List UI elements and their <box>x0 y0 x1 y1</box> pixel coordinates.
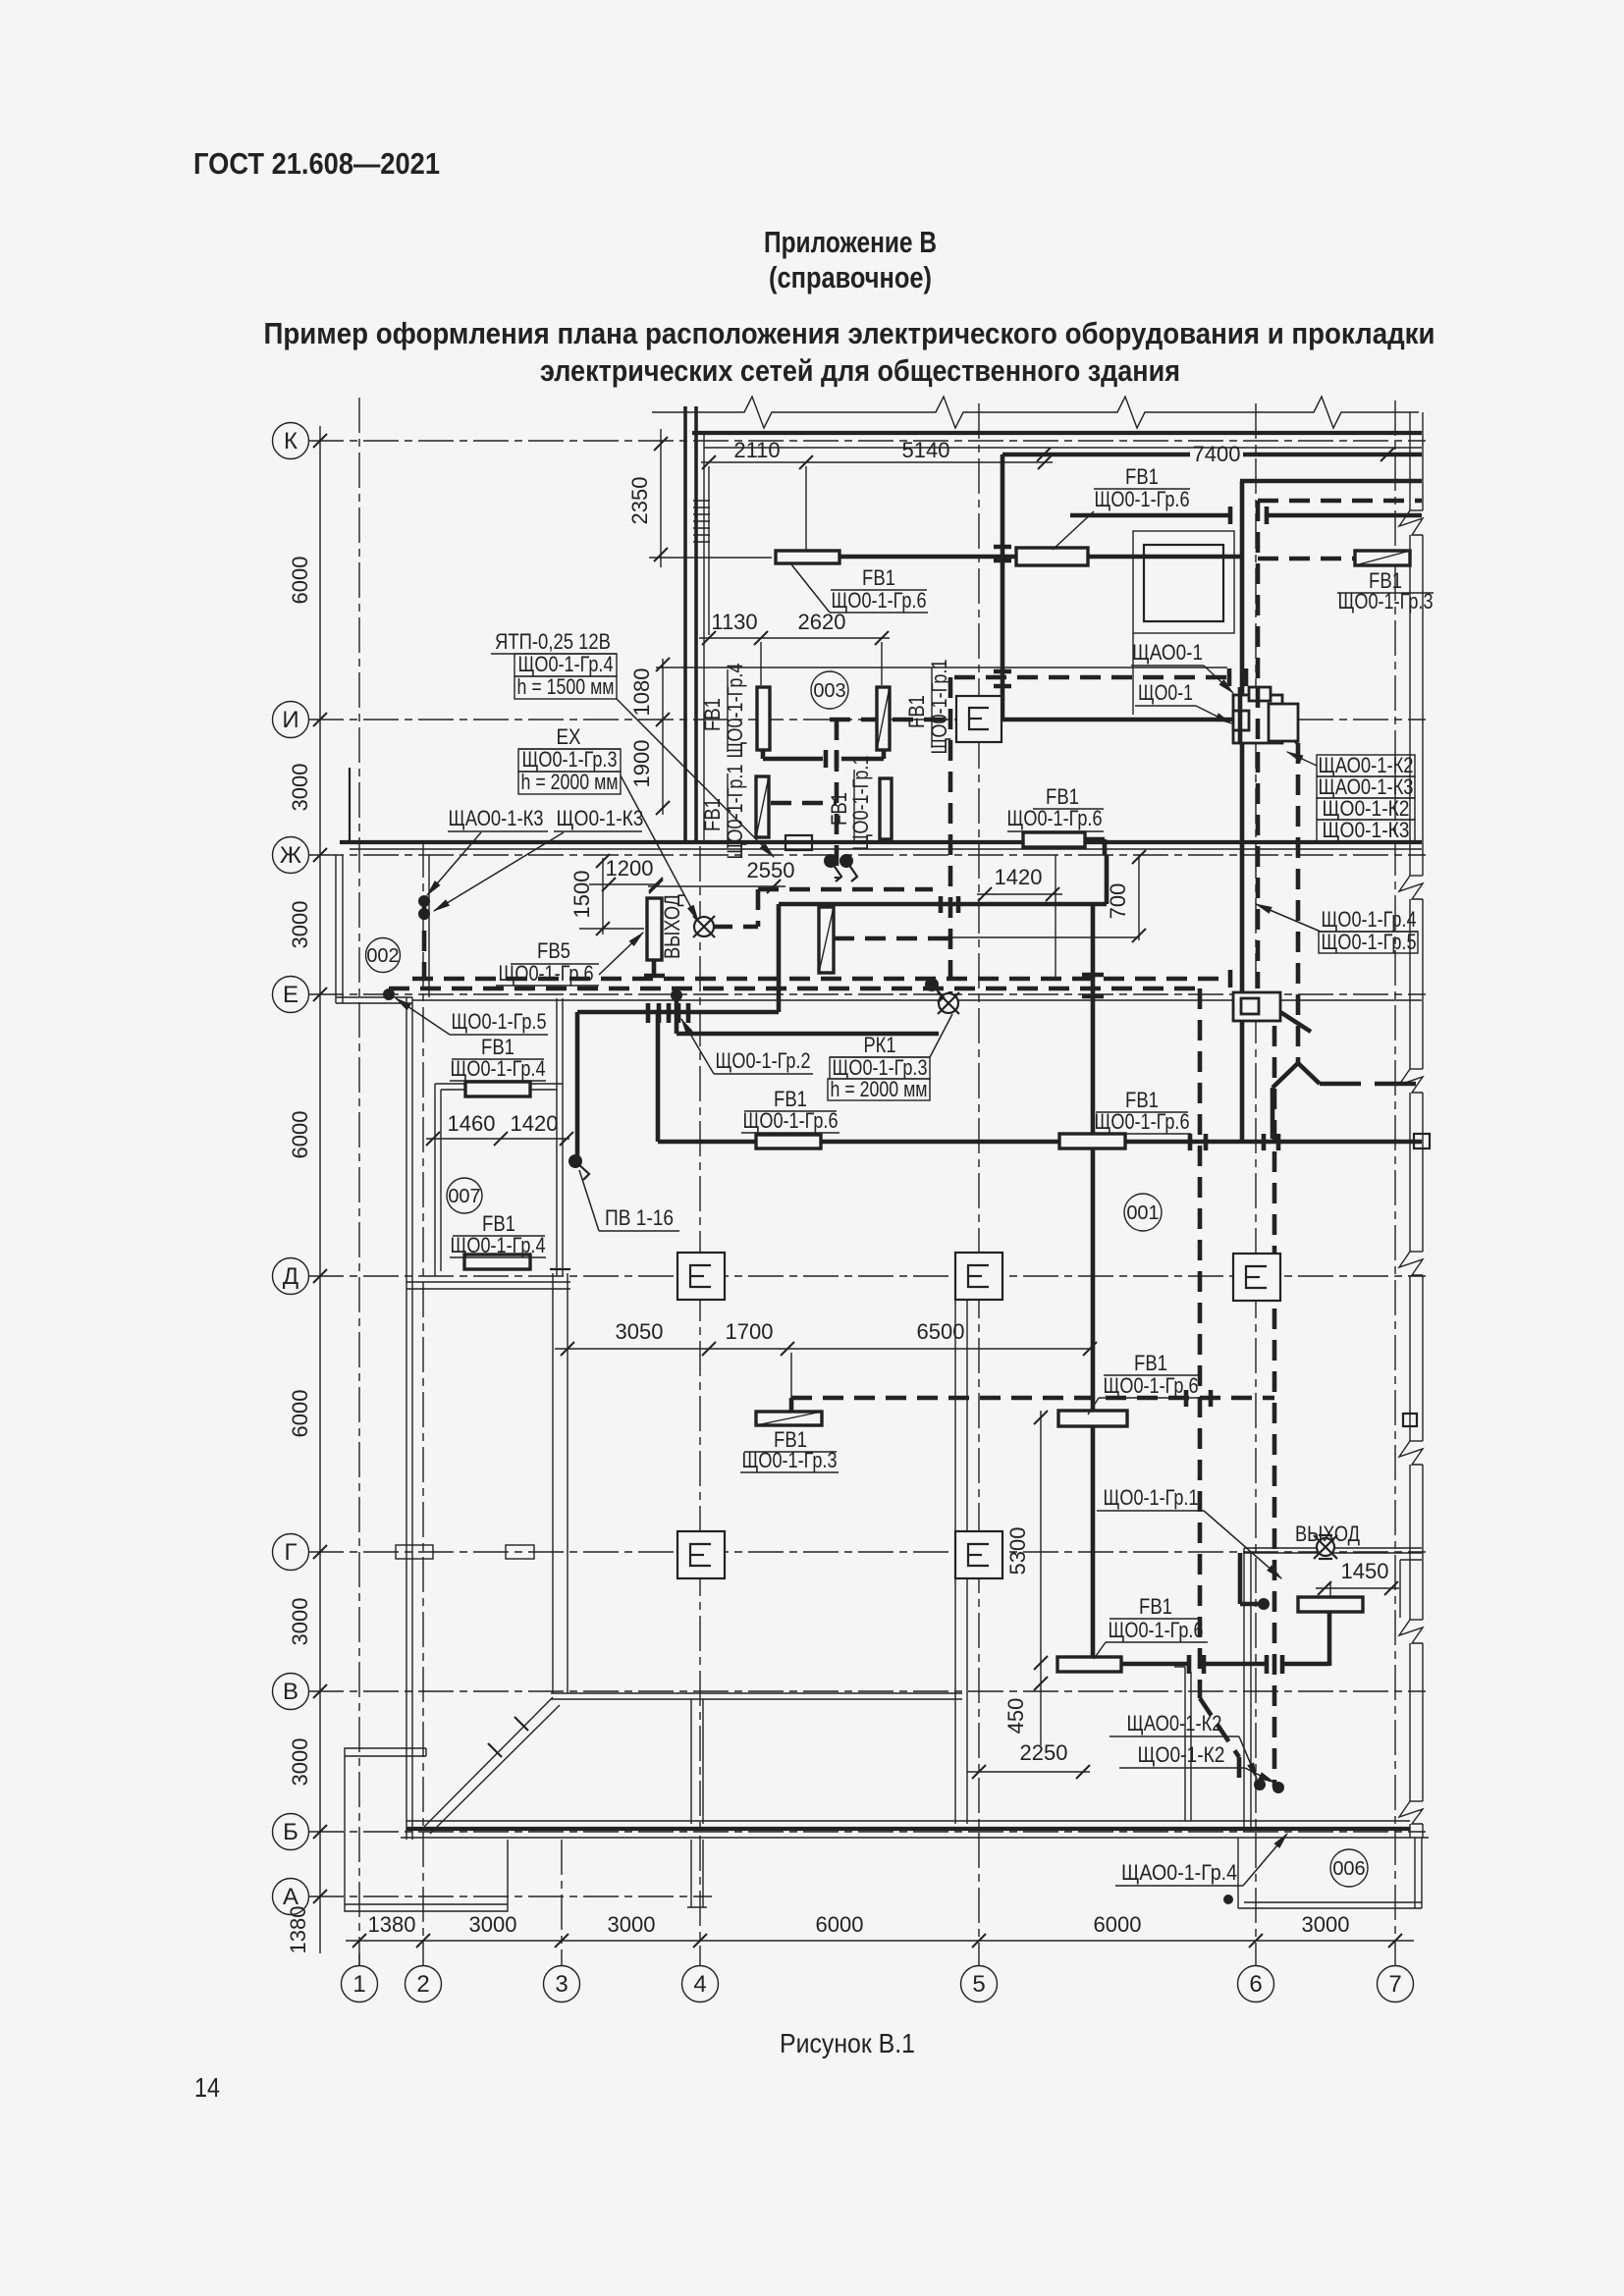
svg-text:ЩО0-1-Гр.1: ЩО0-1-Гр.1 <box>848 756 873 851</box>
column line 6 <box>1255 403 1257 1965</box>
wire top room run <box>839 555 1016 560</box>
column line stubs to bubbles <box>358 1953 360 1965</box>
wire run Gr6 y1163 <box>658 1140 1422 1145</box>
wire riser exit lamp <box>1327 1609 1332 1666</box>
dashed stub room003 <box>835 720 839 879</box>
svg-text:ЩО0-1-Гр.6: ЩО0-1-Гр.6 <box>1104 1373 1199 1398</box>
wire Gr1 drop at exit <box>1238 1553 1243 1604</box>
svg-text:003: 003 <box>813 680 845 702</box>
svg-text:ЩО0-1-Гр.4: ЩО0-1-Гр.4 <box>451 1056 546 1081</box>
column line 2 <box>422 842 424 1965</box>
svg-text:ЩО0-1-Гр.1: ЩО0-1-Гр.1 <box>1104 1485 1199 1510</box>
luminaire FB1 I-Zh right <box>1023 832 1085 847</box>
svg-text:ЩАО0-1-Гр.4: ЩАО0-1-Гр.4 <box>1121 1860 1237 1885</box>
dashed riser x1281 <box>1256 501 1261 988</box>
svg-text:ВЫХОД: ВЫХОД <box>660 894 684 959</box>
svg-text:Пример оформления плана распол: Пример оформления плана расположения эле… <box>264 316 1435 350</box>
dashed diagonal to B <box>1200 1698 1239 1757</box>
svg-text:FB1: FB1 <box>904 695 929 728</box>
diagonal wall V-B <box>424 1697 553 1827</box>
wire run y1695 <box>1057 1662 1189 1667</box>
diagonal door jamb <box>488 1743 502 1757</box>
dashed feed to FB1 Gr3 luminaire <box>1258 557 1355 561</box>
dashed branch to emergency luminaire <box>834 936 948 941</box>
axis bubble D <box>273 1258 309 1295</box>
porch outline bottom-left <box>345 1748 508 1911</box>
panel box at E/col6 <box>1233 992 1280 1021</box>
svg-text:В: В <box>283 1679 298 1705</box>
junction dot Gr5 <box>383 988 395 1000</box>
axis V line <box>308 1690 1426 1692</box>
svg-text:1450: 1450 <box>1341 1559 1389 1583</box>
column symbol D5 <box>955 1253 1002 1300</box>
axis bubble 7 <box>1378 1966 1414 2002</box>
svg-text:ЩО0-1: ЩО0-1 <box>1138 680 1193 705</box>
axis bubble 3 <box>544 1966 580 2002</box>
dim 700 vertical <box>1138 855 1140 940</box>
dim 2250 <box>967 1771 1090 1773</box>
axis bubble Zh <box>273 837 309 874</box>
exit lamp bottom right (X with stubs) <box>1314 1535 1337 1559</box>
svg-text:2250: 2250 <box>1020 1740 1068 1765</box>
wire riser east x1265 <box>1240 481 1245 1142</box>
svg-text:h = 1500 мм: h = 1500 мм <box>517 674 615 699</box>
top break line with zigzags <box>652 397 1419 428</box>
wire segment K-I right <box>1267 513 1422 518</box>
room circle 002 <box>366 938 401 973</box>
dim 1460 1420 (room 007) <box>426 1138 569 1140</box>
column line 5 <box>978 403 980 1965</box>
svg-text:2110: 2110 <box>733 438 780 462</box>
wire end box right wall y1104 <box>1403 1414 1417 1426</box>
column 4 wall V-B <box>690 1699 692 1824</box>
svg-text:РК1: РК1 <box>864 1033 896 1057</box>
axis bubble V <box>273 1674 309 1710</box>
svg-text:6000: 6000 <box>288 557 312 605</box>
elevator room outline <box>1133 531 1234 633</box>
svg-text:ЩО0-1-Гр.5: ЩО0-1-Гр.5 <box>452 1009 547 1034</box>
svg-text:ЩО0-1-Гр.6: ЩО0-1-Гр.6 <box>1095 487 1190 511</box>
axis bubble A <box>273 1879 309 1915</box>
axis bubble 6 <box>1238 1966 1274 2002</box>
top wall thick <box>692 431 1422 435</box>
axis A line <box>308 1896 712 1897</box>
dashed run I corridor <box>954 675 1229 680</box>
dashed riser x1222 E-B <box>1198 988 1203 1698</box>
dim 2110 5140 line <box>701 461 1053 463</box>
svg-text:FB1: FB1 <box>700 698 725 731</box>
switch dots at Zh wall <box>824 854 838 868</box>
wire riser x588 to switch <box>575 1012 580 1156</box>
lamp RK1 (circle-X) <box>938 992 959 1014</box>
axis bubble K <box>273 423 309 459</box>
axis bubble 5 <box>961 1966 998 2002</box>
dim 2550 <box>648 885 785 887</box>
west wall column 4 upper outer <box>683 406 687 842</box>
luminaire FB1 room003 v4 <box>880 778 892 839</box>
column symbol G5 <box>955 1531 1002 1578</box>
wire riser x689 <box>675 995 679 1034</box>
dashed run G y1424 <box>791 1396 1274 1401</box>
svg-text:14: 14 <box>194 2072 220 2103</box>
wire top room run right <box>1088 555 1242 560</box>
svg-text:3000: 3000 <box>288 1598 312 1646</box>
svg-text:ЩО0-1-Гр.4: ЩО0-1-Гр.4 <box>451 1233 546 1257</box>
room 006 corridor wall <box>1184 1667 1186 1821</box>
dashed double run E lower <box>389 987 1200 991</box>
left dim ticks <box>313 434 327 1903</box>
svg-text:FB1: FB1 <box>862 565 895 590</box>
porch bottom right <box>1244 1901 1422 1903</box>
svg-text:1500: 1500 <box>569 871 594 919</box>
dashed riser x1298 <box>1272 994 1277 1788</box>
svg-text:1130: 1130 <box>711 610 757 634</box>
dim 5300 vertical <box>1040 1411 1042 1669</box>
room 002 west stub above Zh <box>349 768 351 842</box>
svg-text:001: 001 <box>1126 1202 1159 1224</box>
luminaire FB1 exit bottom right <box>1298 1597 1363 1612</box>
switch near RK1 <box>925 978 939 991</box>
svg-text:ЩО0-1-Гр.6: ЩО0-1-Гр.6 <box>1007 806 1103 830</box>
door niche right porch <box>1399 1560 1401 1618</box>
dim 3050 1700 6500 <box>555 1348 1095 1350</box>
luminaire FB1 top-mid <box>1016 548 1088 565</box>
svg-text:ЩО0-1-Гр.6: ЩО0-1-Гр.6 <box>499 961 594 986</box>
axis Zh line <box>308 854 1426 856</box>
dim 1420 (I-Zh) <box>977 893 1062 895</box>
svg-text:3000: 3000 <box>469 1912 517 1937</box>
svg-text:И: И <box>282 707 298 733</box>
svg-text:ЩАО0-1-К3: ЩАО0-1-К3 <box>449 806 544 830</box>
svg-text:4: 4 <box>693 1971 706 1998</box>
wire top-right run <box>1240 479 1422 484</box>
svg-text:7400: 7400 <box>1193 442 1241 466</box>
axis bubble 1 <box>342 1966 378 2002</box>
svg-text:ЩО0-1-Гр.4: ЩО0-1-Гр.4 <box>723 664 747 759</box>
wire run y1053 <box>677 1032 939 1037</box>
svg-text:Приложение В: Приложение В <box>764 225 937 259</box>
svg-text:1380: 1380 <box>368 1912 416 1937</box>
dim refs verticals <box>649 466 882 685</box>
svg-text:ЩО0-1-Гр.6: ЩО0-1-Гр.6 <box>1109 1618 1204 1642</box>
riser x1113 E-B <box>1091 904 1096 1664</box>
luminaire FB1 E run right <box>1059 1134 1125 1148</box>
room 003 partition top <box>656 667 1227 668</box>
column symbol D4 <box>677 1253 725 1300</box>
svg-text:6: 6 <box>1249 1971 1262 1998</box>
svg-text:ЩО0-1-Гр.3: ЩО0-1-Гр.3 <box>1338 589 1434 614</box>
svg-text:1200: 1200 <box>606 856 654 881</box>
svg-text:Д: Д <box>283 1263 298 1290</box>
wire riser x793 <box>777 904 782 1012</box>
axis bubble E <box>273 977 309 1013</box>
svg-text:ЩО0-1-Гр.4: ЩО0-1-Гр.4 <box>518 652 614 676</box>
luminaire FB1 bottom run <box>1057 1657 1121 1672</box>
svg-text:ЩО0-1-Гр.6: ЩО0-1-Гр.6 <box>1095 1109 1190 1134</box>
svg-text:1: 1 <box>352 1971 365 1998</box>
dashed run top-right <box>1258 499 1422 504</box>
room circle 007 <box>447 1178 482 1213</box>
junction dots B area <box>1254 1779 1266 1790</box>
room circle 001 <box>1124 1194 1162 1231</box>
west wall Zh-E inner <box>342 855 344 1003</box>
axis bubble G <box>273 1534 309 1571</box>
svg-text:1080: 1080 <box>629 668 654 717</box>
boxed labels K2 K3 stack <box>1317 755 1415 776</box>
svg-text:ПВ 1-16: ПВ 1-16 <box>605 1205 674 1230</box>
Zh wall thick <box>340 840 1422 844</box>
svg-text:ЩО0-1-Гр.6: ЩО0-1-Гр.6 <box>743 1108 839 1133</box>
svg-text:h = 2000 мм: h = 2000 мм <box>831 1077 928 1101</box>
left dimension chain line <box>319 426 321 1953</box>
wire riser x670 <box>656 1012 661 1142</box>
room 006 west wall <box>1243 1548 1245 1832</box>
svg-text:6500: 6500 <box>917 1319 965 1344</box>
room 007 top wall <box>435 1083 563 1085</box>
svg-text:ЩО0-1-Гр.3: ЩО0-1-Гр.3 <box>742 1448 838 1472</box>
column symbol G4 <box>677 1531 725 1578</box>
svg-text:ЩАО0-1: ЩАО0-1 <box>1132 640 1203 665</box>
svg-text:FB1: FB1 <box>1134 1351 1167 1375</box>
V wall horizontal <box>551 1692 962 1694</box>
svg-text:EX: EX <box>557 724 581 749</box>
wire end box right wall y1163 <box>1414 1134 1430 1148</box>
svg-text:FB1: FB1 <box>1139 1594 1172 1619</box>
luminaire FB1 E run left <box>756 1135 821 1148</box>
column line 4 <box>699 846 701 1965</box>
room circle 006 <box>1330 1849 1368 1887</box>
solid run I axis <box>1002 718 1233 722</box>
dashed exit lamp wire <box>712 925 758 930</box>
axis E line <box>308 993 1426 995</box>
crossing bars on run1424 <box>1186 1390 1211 1407</box>
west wall E-B outer <box>406 997 407 1840</box>
svg-text:1700: 1700 <box>726 1319 774 1344</box>
axis bubble I <box>273 702 309 738</box>
svg-text:1420: 1420 <box>995 865 1043 889</box>
Zh wall thin face <box>350 848 1422 850</box>
svg-text:Рисунок В.1: Рисунок В.1 <box>780 2028 915 2058</box>
svg-text:7: 7 <box>1388 1971 1401 1998</box>
svg-text:006: 006 <box>1332 1858 1365 1880</box>
room circle 003 <box>811 671 848 709</box>
top wall inner thin <box>704 447 1422 449</box>
porch wall column 4 <box>690 1840 692 1907</box>
svg-text:ЩО0-1-Гр.5: ЩО0-1-Гр.5 <box>1322 930 1417 954</box>
svg-text:ЩО0-1-Гр.3: ЩО0-1-Гр.3 <box>522 747 618 772</box>
svg-text:1900: 1900 <box>629 740 654 788</box>
svg-text:ЩО0-1-К3: ЩО0-1-К3 <box>1323 818 1410 842</box>
dim 1450 <box>1316 1587 1399 1589</box>
axis D line <box>308 1275 1426 1277</box>
luminaire FB5 vertical <box>647 898 662 960</box>
svg-text:002: 002 <box>366 945 399 967</box>
luminaire FB1 top-right with diagonal <box>1355 551 1410 565</box>
wire segment K-I left <box>1070 513 1230 518</box>
axis bubble B <box>273 1814 309 1850</box>
dim 1200 <box>589 883 660 885</box>
axis G line <box>308 1551 1426 1553</box>
luminaire emergency v diagonal near exit <box>819 907 834 973</box>
svg-text:5: 5 <box>972 1971 985 1998</box>
west wall Zh-E outer <box>335 855 337 1003</box>
svg-text:FB1: FB1 <box>1125 464 1159 489</box>
dim 1080 1900 vertical <box>662 659 664 815</box>
svg-text:3050: 3050 <box>616 1319 664 1344</box>
axis B line <box>308 1831 1426 1833</box>
wire run y921 <box>779 902 1107 907</box>
dashed riser x432 <box>422 899 427 979</box>
junction dots K3 <box>418 895 430 907</box>
dim 7400 thick line <box>1002 453 1190 457</box>
axis bubble 2 <box>406 1966 442 2002</box>
column line 7 <box>1394 400 1396 1965</box>
west wall column 4 upper inner <box>694 406 698 842</box>
svg-text:Г: Г <box>285 1539 298 1566</box>
wire run y1031 <box>577 1010 779 1015</box>
crossing bars on E wall <box>648 1003 688 1023</box>
room 007 west wall <box>434 1084 436 1276</box>
room 007 east wall <box>556 998 558 1276</box>
dashed double run E upper <box>412 977 1230 982</box>
room 002 east wall <box>428 855 430 997</box>
svg-text:3000: 3000 <box>288 901 312 949</box>
svg-text:ЩАО0-1-К2: ЩАО0-1-К2 <box>1127 1711 1222 1735</box>
luminaire FB1 room003 v2 diagonal <box>877 687 890 750</box>
svg-text:ЩО0-1-Гр.4: ЩО0-1-Гр.4 <box>1322 907 1417 932</box>
svg-text:ЩО0-1-Гр.2: ЩО0-1-Гр.2 <box>716 1048 811 1073</box>
bottom dim ticks <box>352 1934 1402 1948</box>
luminaire FB1 riser mid <box>1058 1411 1127 1426</box>
west wall column 4 thin face <box>703 433 705 842</box>
junction dot Gr2 <box>671 989 682 1001</box>
svg-text:К: К <box>284 428 298 454</box>
column line 3 <box>561 1840 563 1965</box>
svg-text:(справочное): (справочное) <box>769 260 932 294</box>
svg-text:2620: 2620 <box>798 610 846 634</box>
svg-text:ЩО0-1-Гр.1: ЩО0-1-Гр.1 <box>927 660 951 755</box>
svg-text:h = 2000 мм: h = 2000 мм <box>521 770 619 794</box>
svg-text:1460: 1460 <box>448 1111 496 1136</box>
panel group SchO-1 at I/col6 <box>1233 695 1282 743</box>
svg-text:ЩО0-1-К3: ЩО0-1-К3 <box>557 806 644 830</box>
svg-text:электрических сетей для общест: электрических сетей для общественного зд… <box>540 353 1180 388</box>
svg-text:007: 007 <box>448 1186 480 1207</box>
svg-text:3000: 3000 <box>288 1738 312 1787</box>
E corridor wall thin <box>412 999 1422 1001</box>
bottom dimension chain line <box>346 1940 1414 1942</box>
svg-text:ЩО0-1-К2: ЩО0-1-К2 <box>1138 1742 1225 1767</box>
svg-text:1380: 1380 <box>286 1906 310 1954</box>
E step wall horizontal <box>336 996 412 998</box>
crossing bars on run1163 <box>1190 1134 1278 1150</box>
luminaire FB1 G run with diagonal <box>756 1412 822 1425</box>
svg-text:FB5: FB5 <box>537 938 570 963</box>
dashed riser RK1 <box>948 677 953 995</box>
svg-text:6000: 6000 <box>816 1912 864 1937</box>
svg-text:ЯТП-0,25 12В: ЯТП-0,25 12В <box>495 629 611 654</box>
luminaire FB1 room007 top <box>465 1082 530 1096</box>
axis K line <box>308 440 1426 442</box>
exit wall bottom right <box>1244 1547 1422 1549</box>
svg-text:3000: 3000 <box>608 1912 656 1937</box>
G wall door jambs left <box>396 1545 433 1559</box>
axis I line <box>308 719 1426 721</box>
wire riser to Zh wall <box>1105 855 1110 904</box>
svg-text:ГОСТ 21.608—2021: ГОСТ 21.608—2021 <box>193 146 440 181</box>
wire luminaire 003 stub <box>1085 837 1105 842</box>
wire riser x1021 <box>1001 454 1005 720</box>
svg-text:5140: 5140 <box>902 438 950 462</box>
luminaire FB1 room003 v1 <box>757 687 770 750</box>
svg-text:FB1: FB1 <box>700 798 725 831</box>
dim 450 vertical <box>1040 1669 1042 1745</box>
svg-text:6000: 6000 <box>288 1390 312 1438</box>
axis bubble 4 <box>682 1966 719 2002</box>
column symbol D6 <box>1233 1254 1280 1301</box>
wires room 003 <box>761 750 766 759</box>
svg-text:700: 700 <box>1106 883 1130 920</box>
long dash run right <box>1320 1082 1422 1087</box>
stair wall column3 D-V <box>552 1273 554 1693</box>
svg-text:6000: 6000 <box>1094 1912 1142 1937</box>
svg-text:ВЫХОД: ВЫХОД <box>1295 1522 1360 1546</box>
dashed riser x1322 with Y branch <box>1296 743 1301 1063</box>
svg-text:Ж: Ж <box>280 842 301 869</box>
dim 1130 2620 line <box>699 637 890 639</box>
east edge break zigzags <box>1399 510 1423 1824</box>
svg-text:Е: Е <box>283 982 298 1008</box>
column 5 wall D-B <box>954 1282 956 1824</box>
luminaire FB1 room007 bottom <box>464 1255 530 1269</box>
column line 1 <box>358 398 360 1965</box>
luminaire FB1 room003 v3 diagonal <box>756 776 769 837</box>
switch PV 1-16 <box>568 1154 582 1168</box>
svg-text:5300: 5300 <box>1005 1527 1030 1575</box>
window hatch on wall 4 <box>693 501 710 542</box>
exit lamp top (circle-X) <box>693 916 715 937</box>
svg-text:3000: 3000 <box>288 764 312 812</box>
east edge wall lines with break marks <box>1410 412 1423 1838</box>
svg-text:2550: 2550 <box>747 858 795 882</box>
dashed stub room003 horizontal <box>771 801 837 806</box>
svg-text:6000: 6000 <box>288 1111 312 1159</box>
svg-text:ЩО0-1-Гр.6: ЩО0-1-Гр.6 <box>832 588 927 613</box>
partition below elevator <box>1132 633 1134 715</box>
elevator shaft square <box>1144 545 1223 621</box>
dim 2350 vertical <box>660 429 662 567</box>
svg-text:3: 3 <box>555 1971 568 1998</box>
D corridor walls <box>406 1281 570 1283</box>
svg-text:450: 450 <box>1003 1698 1028 1735</box>
svg-text:3000: 3000 <box>1302 1912 1350 1937</box>
dashed run I axis left <box>830 718 992 722</box>
west wall E-B inner <box>411 997 413 1840</box>
small box room003 <box>785 835 812 850</box>
svg-text:Б: Б <box>283 1819 298 1845</box>
svg-text:2350: 2350 <box>627 477 652 525</box>
svg-text:2: 2 <box>416 1971 429 1998</box>
luminaire FB1 top-left <box>776 551 839 563</box>
svg-text:1420: 1420 <box>511 1111 559 1136</box>
column symbol I5 <box>956 696 1001 742</box>
diagonal from panel to riser <box>1280 726 1298 743</box>
dim 1500 vertical <box>602 858 604 934</box>
B bottom wall band <box>406 1820 1410 1822</box>
svg-text:ЩО0-1-Гр.1: ЩО0-1-Гр.1 <box>723 765 747 860</box>
